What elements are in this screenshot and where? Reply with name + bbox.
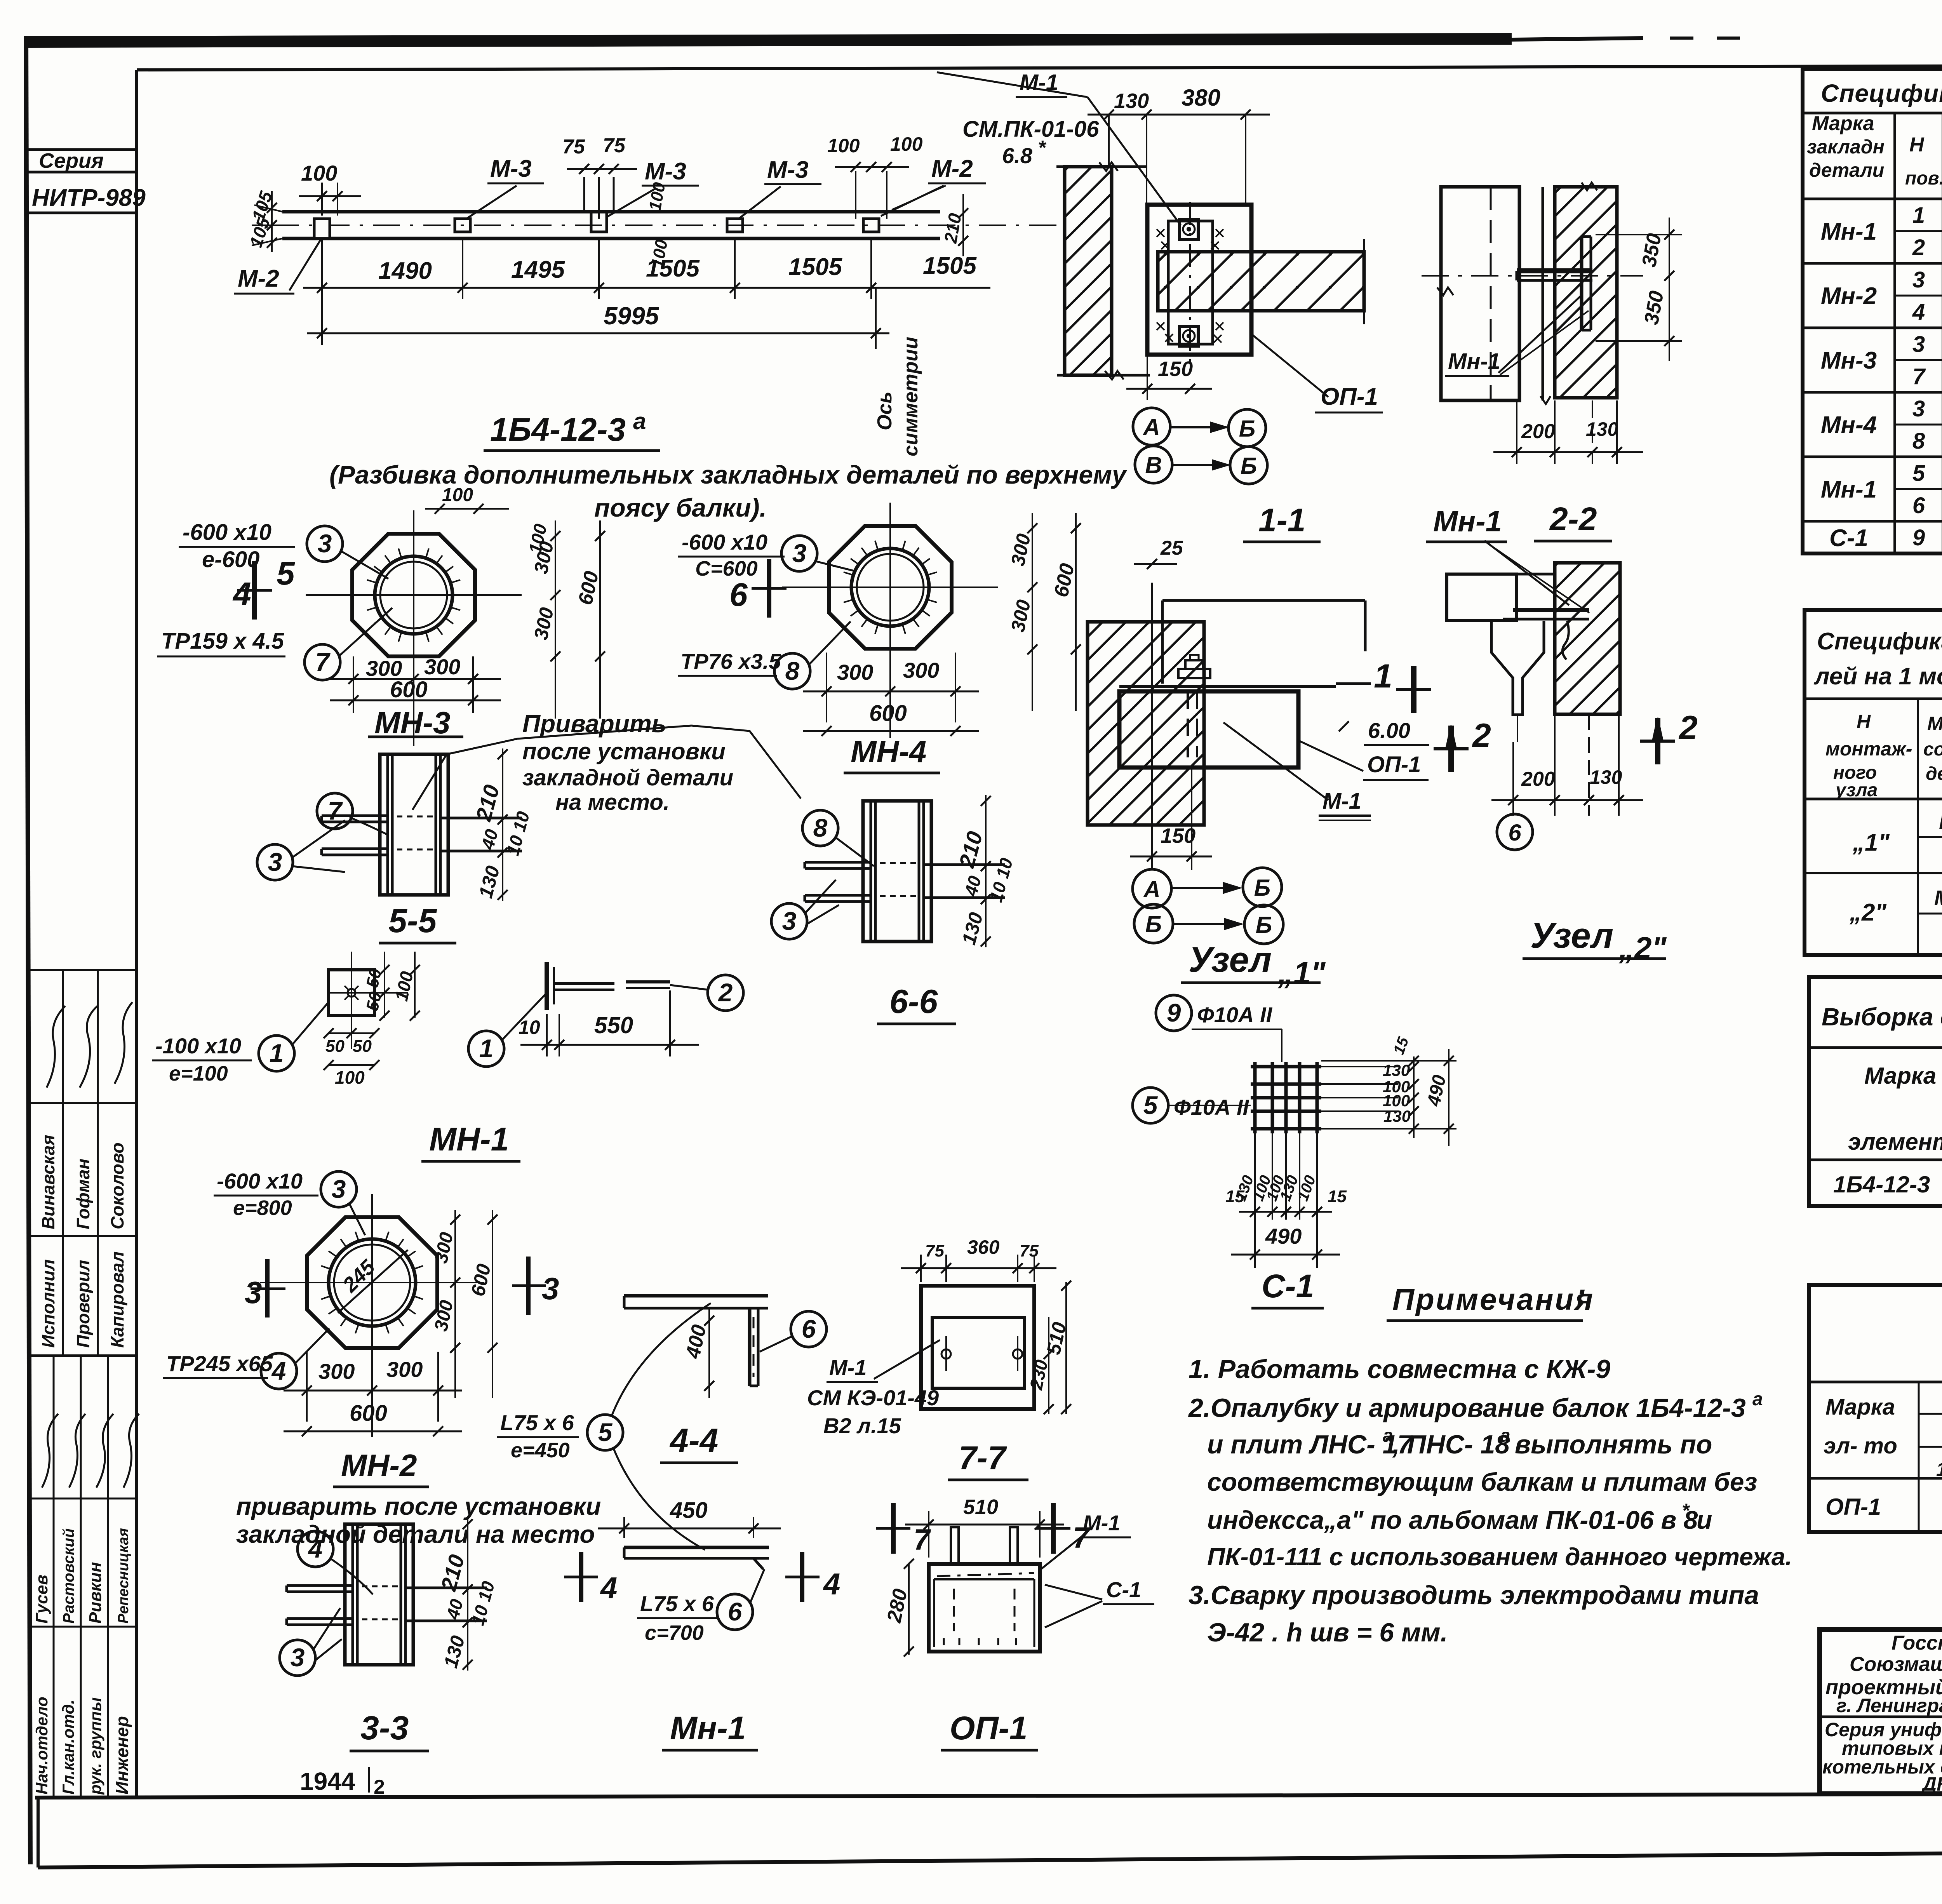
вид 7-7 outer square — [921, 1286, 1034, 1409]
svg-text:Нач.отдело: Нач.отдело — [33, 1697, 51, 1794]
table title row line — [1803, 112, 1942, 115]
svg-text:9: 9 — [1912, 525, 1925, 550]
svg-text:ТР245 х65: ТР245 х65 — [166, 1351, 273, 1376]
7-7 top dims 75 360 75 — [920, 1255, 922, 1282]
ОП-1 section marks 7 — [891, 1503, 896, 1554]
svg-text:Инженер: Инженер — [112, 1716, 132, 1794]
svg-text:6: 6 — [728, 1597, 743, 1626]
svg-text:узла: узла — [1835, 780, 1878, 801]
узел 2 anchor funnel — [1491, 621, 1544, 715]
view 2-2 embed Мн-1 tee upright — [1580, 237, 1584, 330]
svg-text:1505: 1505 — [788, 254, 842, 280]
Мн-1 title fork leader into узел 2 — [1484, 541, 1569, 605]
view 1-1 wall top line with break — [1056, 165, 1146, 168]
sidebar signatures upper (rotated squiggles) — [47, 1006, 65, 1088]
svg-text:С-1: С-1 — [1262, 1268, 1314, 1304]
view 1-1 dim 130/380 — [1108, 115, 1110, 168]
svg-text:приварить после установки: приварить после установки — [236, 1492, 601, 1520]
svg-text:Узел: Узел — [1530, 916, 1613, 955]
svg-text:3: 3 — [1912, 267, 1925, 292]
svg-text:Капировал: Капировал — [107, 1251, 127, 1348]
6-6 leader circle 3 — [771, 903, 807, 939]
svg-text:-600 х10: -600 х10 — [183, 520, 271, 545]
svg-text:соедин.: соедин. — [1923, 739, 1942, 760]
svg-text:г. Ленинград: г. Ленинград — [1836, 1695, 1942, 1716]
svg-text:7-7: 7-7 — [959, 1439, 1007, 1476]
узел 1 anchor dashed — [1187, 691, 1189, 757]
view 1-1 dim 150 — [1147, 355, 1148, 400]
svg-text:1: 1 — [1912, 203, 1925, 228]
выборка data row — [1809, 1159, 1942, 1161]
view 2-2 centreline — [1422, 275, 1643, 277]
деталь МН-2 octagon plate — [307, 1217, 437, 1348]
МН-2 dims bottom 300 300 / 600 — [306, 1352, 308, 1422]
svg-text:6-6: 6-6 — [889, 983, 938, 1020]
svg-text:закладной детали: закладной детали — [522, 765, 733, 790]
svg-text:а: а — [1383, 1425, 1393, 1446]
svg-text:закладн: закладн — [1807, 136, 1885, 158]
svg-text:1. Работать совместна с КЖ-9: 1. Работать совместна с КЖ-9 — [1189, 1354, 1610, 1384]
svg-text:4: 4 — [1912, 299, 1925, 325]
table header bottom line — [1803, 198, 1942, 200]
svg-text:закладной детали на место: закладной детали на место — [236, 1520, 595, 1548]
svg-text:Марка: Марка — [1825, 1394, 1895, 1420]
svg-text:360: 360 — [967, 1236, 1000, 1258]
dim 105 105 left (rotated) — [271, 191, 273, 252]
sheet outer bottom edge — [38, 1848, 1942, 1867]
embed plate М-3 #2 (double, 75/75) — [591, 212, 607, 232]
svg-text:3.Сварку производить электрод: 3.Сварку производить электродами типа — [1189, 1580, 1759, 1610]
svg-text:1505: 1505 — [646, 255, 700, 282]
svg-text:600: 600 — [390, 677, 428, 702]
svg-text:5995: 5995 — [604, 302, 660, 330]
frame bottom line (title block base) — [35, 1793, 1942, 1798]
svg-text:6: 6 — [729, 576, 748, 613]
svg-text:7: 7 — [914, 1523, 931, 1556]
svg-text:5: 5 — [1912, 461, 1925, 486]
bar leader circle 1 — [468, 1031, 504, 1067]
svg-text:Гусев: Гусев — [32, 1575, 51, 1624]
svg-text:510: 510 — [963, 1495, 998, 1519]
svg-text:3: 3 — [291, 1643, 305, 1672]
вид 4-4 tee: web — [748, 1308, 752, 1386]
svg-text:3: 3 — [318, 529, 332, 558]
dim 5995 overall — [307, 332, 889, 334]
svg-text:Ф10А II: Ф10А II — [1197, 1002, 1273, 1027]
svg-text:Соколово: Соколово — [107, 1142, 127, 1229]
svg-text:с=700: с=700 — [645, 1621, 704, 1645]
МН-4 dims bottom 300 300 / 600 — [826, 653, 827, 722]
ОП-1 dim 280 left — [908, 1564, 910, 1655]
svg-text:Союзмашстройпроект: Союзмашстройпроект — [1850, 1653, 1942, 1676]
узел 2 embed plate on beam — [1513, 608, 1589, 612]
bar leader circle 2 — [708, 975, 743, 1011]
3-3 leader circle 4 — [298, 1531, 333, 1567]
svg-text:НИТР-989: НИТР-989 — [32, 184, 146, 211]
svg-text:М-2: М-2 — [238, 265, 279, 292]
svg-text:6: 6 — [1508, 820, 1521, 846]
svg-text:1944: 1944 — [300, 1767, 355, 1795]
svg-text:-600 х10: -600 х10 — [682, 530, 767, 554]
svg-text:1-1: 1-1 — [1258, 502, 1305, 538]
МН-1 bar with 550: end plate — [545, 962, 549, 1010]
МН-1 bar section marks 4 — [579, 1552, 583, 1602]
svg-text:Выборка стали на один элемент.: Выборка стали на один элемент.(дополните… — [1822, 1003, 1942, 1031]
svg-text:детали: детали — [1809, 159, 1884, 181]
dim 75 75 above plate М-3 #2 — [567, 168, 637, 170]
svg-text:3: 3 — [268, 848, 282, 876]
таблица спецификация соединит деталей: frame — [1805, 610, 1942, 955]
svg-text:и плит ЛНС- 17: и плит ЛНС- 17 — [1207, 1430, 1413, 1459]
beam 1Б4-12-3а bottom chord — [282, 237, 940, 240]
svg-text:а: а — [1500, 1425, 1510, 1446]
svg-text:25: 25 — [1160, 537, 1183, 559]
view 1-1 weld x-marks — [1157, 229, 1164, 237]
svg-text:лей на 1 монтажный узел.: лей на 1 монтажный узел. — [1813, 663, 1942, 690]
svg-text:130: 130 — [1383, 1061, 1410, 1079]
svg-text:130: 130 — [1586, 418, 1618, 440]
svg-text:МН-2: МН-2 — [341, 1448, 417, 1483]
svg-text:600: 600 — [869, 701, 907, 726]
7-7 dim 510 right — [1065, 1282, 1067, 1414]
table спецификация стали: outer frame — [1803, 69, 1942, 553]
7-7 dim 230 — [1048, 1317, 1049, 1414]
7-7 bolts — [941, 1349, 951, 1359]
label 5 Ф10АII — [1133, 1088, 1168, 1123]
svg-text:100: 100 — [301, 161, 337, 185]
svg-text:4: 4 — [308, 1534, 323, 1563]
beam centreline (dash-dot) — [272, 225, 1064, 226]
ОП-1 dim 510 top — [928, 1511, 929, 1558]
svg-text:Н: Н — [1909, 134, 1925, 156]
view 2-2 dim 350/350 right — [1596, 234, 1682, 235]
svg-text:монтаж-: монтаж- — [1825, 738, 1912, 760]
svg-text:1490: 1490 — [378, 258, 432, 284]
svg-text:МН-1: МН-1 — [429, 1121, 509, 1157]
узел 1 grade circles — [1133, 869, 1171, 908]
svg-text:а: а — [1752, 1389, 1763, 1410]
узел 1 wall hatched — [1088, 622, 1204, 825]
svg-text:300: 300 — [424, 654, 460, 679]
svg-text:200: 200 — [1521, 420, 1555, 443]
svg-text:5-5: 5-5 — [388, 902, 437, 940]
svg-text:4: 4 — [232, 576, 251, 612]
6-6 leader circle 8 — [802, 810, 838, 846]
svg-text:6.00: 6.00 — [1368, 718, 1410, 743]
С-1 dim 490 right — [1448, 1049, 1450, 1146]
svg-text:детали: детали — [1926, 764, 1942, 784]
вид 5-5 plate section — [380, 754, 448, 895]
svg-text:М-1: М-1 — [1083, 1511, 1120, 1535]
показатели header — [1918, 1382, 1920, 1532]
4-4 circle 6 — [791, 1311, 827, 1347]
svg-text:130: 130 — [1114, 89, 1149, 113]
svg-text:L75 х 6: L75 х 6 — [500, 1410, 574, 1435]
svg-text:15: 15 — [1328, 1187, 1347, 1206]
view 1-1 bolt bottom — [1180, 326, 1198, 346]
svg-text:4: 4 — [600, 1571, 617, 1605]
svg-text:ПК-01-111 с использованием да: ПК-01-111 с использованием данного черте… — [1207, 1543, 1792, 1571]
узел 1 plate ОП-1 block — [1119, 691, 1298, 768]
svg-text:3: 3 — [1912, 396, 1925, 421]
svg-text:М-1: М-1 — [1323, 788, 1361, 814]
svg-text:е-600: е-600 — [202, 547, 259, 572]
5-5 leader circle 3 — [257, 844, 293, 880]
МН-1 plan small plate — [329, 970, 374, 1016]
table header verticals — [1893, 113, 1896, 553]
svg-text:пов.: пов. — [1905, 168, 1942, 189]
svg-text:150: 150 — [1161, 824, 1195, 848]
узел 1 beam above — [1162, 599, 1365, 602]
svg-text:СМ.ПК-01-06: СМ.ПК-01-06 — [962, 117, 1099, 142]
svg-text:Проверил: Проверил — [73, 1260, 93, 1348]
ОП-1 anchor dashes inside — [953, 1589, 955, 1631]
embed plate М-3 #3 — [727, 219, 743, 232]
view 2-2 top break mark — [1582, 183, 1597, 190]
view 2-2 embed Мн-1 plate — [1517, 268, 1592, 273]
svg-text:СМ КЭ-01-49: СМ КЭ-01-49 — [807, 1385, 939, 1410]
вид 4-4 tee: top flange — [624, 1294, 768, 1298]
svg-text:1Б4-12-3: 1Б4-12-3 — [1833, 1171, 1930, 1197]
svg-text:1: 1 — [270, 1039, 284, 1067]
svg-text:Ривкин: Ривкин — [86, 1562, 105, 1624]
заголовок Показатели на один элемент — [1809, 1285, 1942, 1532]
svg-text:130: 130 — [1590, 766, 1622, 788]
svg-text:М-1: М-1 — [829, 1355, 867, 1380]
svg-text:-600 х10: -600 х10 — [217, 1169, 303, 1193]
svg-text:3: 3 — [782, 907, 797, 935]
svg-text:130: 130 — [1383, 1107, 1411, 1125]
svg-text:300: 300 — [318, 1359, 355, 1384]
dim 210 right of beam (rotated) — [958, 208, 968, 218]
svg-text:3: 3 — [542, 1271, 559, 1306]
svg-text:индексса„а" по альбомам ПК-01: индексса„а" по альбомам ПК-01-06 в 8 — [1207, 1505, 1698, 1534]
view 1-1 centreline — [1189, 202, 1191, 373]
svg-text:Мн-3: Мн-3 — [1821, 347, 1877, 374]
узел 1 bolt — [1178, 669, 1210, 678]
svg-text:100: 100 — [827, 135, 860, 157]
svg-text:Гофман: Гофман — [73, 1159, 93, 1229]
деталь МН-3 octagon plate — [352, 534, 475, 656]
вид 3-3 plate section — [345, 1524, 413, 1665]
svg-text:С-1: С-1 — [1106, 1577, 1141, 1602]
svg-text:Растовский: Растовский — [60, 1528, 77, 1624]
svg-text:450: 450 — [670, 1498, 708, 1523]
узел 1 dim 150 — [1151, 825, 1153, 870]
svg-text:3: 3 — [1912, 332, 1925, 357]
svg-text:100: 100 — [890, 133, 923, 155]
МН-1 plan dims 50/50/100 right — [384, 952, 385, 1018]
узел 2 beam left — [1447, 574, 1517, 621]
svg-text:1: 1 — [479, 1034, 494, 1063]
svg-text:В2 л.15: В2 л.15 — [823, 1413, 901, 1438]
svg-text:Ось: Ось — [874, 392, 896, 430]
svg-text:100: 100 — [335, 1067, 365, 1088]
МН-1 plan dims 50 50 bottom — [329, 1032, 374, 1034]
svg-text:е=450: е=450 — [511, 1439, 570, 1462]
svg-text:75: 75 — [603, 134, 626, 157]
С-1 right dim chain 15/130/100/100/130 — [1413, 1056, 1415, 1138]
svg-text:2: 2 — [1912, 235, 1925, 260]
svg-text:7: 7 — [315, 647, 331, 676]
svg-text:Спецификация стали на один: Спецификация стали на один закладную дет… — [1821, 79, 1942, 107]
svg-text:на место.: на место. — [555, 790, 670, 815]
вид ОП-1 rect — [929, 1564, 1040, 1652]
svg-text:соответствующим балкам и плита: соответствующим балкам и плитам без — [1207, 1467, 1757, 1496]
svg-text:6: 6 — [1912, 493, 1925, 518]
svg-text:10: 10 — [519, 1016, 540, 1038]
svg-text:2: 2 — [1472, 717, 1491, 754]
svg-text:5: 5 — [277, 555, 295, 592]
svg-text:550: 550 — [594, 1012, 633, 1038]
svg-text:ДКВР: ДКВР — [1921, 1773, 1942, 1795]
svg-text:Марка: Марка — [1812, 112, 1874, 135]
svg-text:Узел: Узел — [1189, 940, 1272, 980]
показатели data row — [1809, 1477, 1942, 1480]
МН-3 dims right 300/300/600 — [481, 534, 482, 656]
svg-text:Мн-1: Мн-1 — [1433, 505, 1502, 538]
svg-text:300: 300 — [903, 658, 939, 682]
svg-text:200: 200 — [1521, 768, 1555, 790]
svg-text:50: 50 — [325, 1037, 345, 1056]
svg-text:1Б4-12-3: 1Б4-12-3 — [490, 411, 626, 448]
bar dim 10 550 — [546, 1014, 548, 1056]
svg-text:L75 х 6: L75 х 6 — [640, 1591, 714, 1616]
svg-text:ТР76 х3.5: ТР76 х3.5 — [680, 649, 781, 674]
svg-text:2: 2 — [1678, 709, 1698, 747]
svg-text:рук. группы: рук. группы — [86, 1697, 104, 1795]
grade circles А Б В Б with arrows — [1133, 408, 1170, 445]
svg-text:Мн-4: Мн-4 — [1821, 412, 1877, 439]
svg-text:М-2: М-2 — [931, 155, 973, 182]
table row lines — [1895, 230, 1942, 232]
узел 2 dims 200 130 — [1512, 742, 1514, 816]
svg-text:75: 75 — [925, 1241, 944, 1260]
svg-text:4: 4 — [271, 1356, 286, 1385]
svg-text:ОП-1: ОП-1 — [950, 1710, 1027, 1746]
svg-text:„2": „2" — [1849, 899, 1887, 926]
svg-text:1: 1 — [1374, 658, 1392, 695]
label 9 Ф10АII — [1156, 995, 1192, 1031]
svg-text:М-3: М-3 — [645, 158, 686, 185]
view 1-1 wall (hatched) — [1065, 167, 1112, 375]
svg-text:МН-4: МН-4 — [851, 734, 927, 769]
svg-text::: : — [1576, 1277, 1586, 1312]
svg-text:„2": „2" — [1618, 931, 1667, 965]
svg-text:„1": „1" — [1852, 829, 1890, 856]
view 1-1 beam slab (concrete hatched) — [1158, 252, 1364, 311]
sidebar signatures lower (squiggles) — [42, 1414, 58, 1488]
svg-text:4-4: 4-4 — [669, 1422, 718, 1459]
dim 100 100 above right М-2 plate — [835, 166, 909, 168]
svg-text:2-2: 2-2 — [1549, 501, 1597, 537]
dim 100 above left plate — [321, 183, 323, 216]
вид 6-6 plate section — [863, 801, 931, 942]
svg-text:Б: Б — [1145, 911, 1162, 937]
view 1-1 bolt top — [1180, 219, 1198, 239]
view 2-2 joint line — [1542, 187, 1544, 400]
4-4 dim 400 — [710, 1296, 711, 1394]
вид 7-7 inner plate — [932, 1317, 1025, 1388]
3-3 leader circle 3 — [280, 1640, 315, 1676]
svg-text:элемента: элемента — [1848, 1129, 1942, 1155]
таблица выборка стали: frame — [1809, 977, 1942, 1206]
view 1-1 anchor plate — [1168, 221, 1213, 344]
svg-text:е=100: е=100 — [169, 1062, 228, 1085]
svg-text:ММ-1: ММ-1 — [1934, 886, 1942, 910]
svg-text:ТР159 х 4.5: ТР159 х 4.5 — [161, 628, 284, 654]
view 2-2 wall hatched — [1555, 187, 1617, 398]
svg-text:„1": „1" — [1277, 955, 1326, 990]
svg-text:5: 5 — [598, 1418, 613, 1446]
svg-text:600: 600 — [350, 1401, 387, 1426]
svg-text:Примечания: Примечания — [1392, 1282, 1594, 1316]
svg-text:Б: Б — [1256, 912, 1272, 938]
svg-text:*: * — [1038, 137, 1047, 159]
beam left end plate М-2 — [314, 219, 330, 238]
svg-text:поясу балки).: поясу балки). — [594, 493, 767, 522]
5-5 leader circle 7 — [317, 793, 353, 829]
view 2-2 left break mark — [1437, 287, 1453, 295]
svg-text:15: 15 — [1225, 1187, 1244, 1206]
узел 1 diag leader М-1 — [1223, 722, 1328, 800]
svg-text:Мн-2: Мн-2 — [1821, 283, 1877, 310]
svg-text:Б: Б — [1241, 453, 1257, 479]
scan dark edge top — [24, 39, 1512, 42]
svg-text:ОП-1: ОП-1 — [1321, 383, 1378, 410]
sidebar column frame — [135, 70, 138, 1798]
svg-text:после установки: после установки — [522, 738, 726, 764]
svg-text:а: а — [633, 408, 646, 434]
svg-text:М-3: М-3 — [767, 157, 809, 183]
svg-text:380: 380 — [1182, 85, 1220, 111]
svg-text:100: 100 — [442, 485, 473, 505]
svg-text:*: * — [1682, 1500, 1690, 1521]
svg-text:Н: Н — [1857, 711, 1871, 733]
svg-text:А: А — [1142, 414, 1160, 440]
МН-1 bar rod (broken) — [554, 982, 614, 985]
svg-text:3: 3 — [332, 1175, 346, 1203]
svg-text:-100 х10: -100 х10 — [155, 1034, 241, 1058]
МН-1 bottom bar — [624, 1546, 769, 1549]
svg-text:М-3: М-3 — [490, 155, 532, 182]
view 2-2 precast column outline — [1441, 187, 1519, 400]
узел 2 wall hatched — [1555, 563, 1620, 714]
svg-text:симметрии: симметрии — [900, 337, 922, 456]
svg-text:6.8: 6.8 — [1002, 143, 1033, 168]
view 1-1 bearing plate — [1147, 205, 1251, 355]
МН-2 dims right 300/300/600 — [456, 1212, 457, 1406]
svg-text:Госстрой СССР: Госстрой СССР — [1892, 1632, 1942, 1654]
scan dark edge left — [26, 37, 30, 1864]
узел 1 top plate line — [1119, 685, 1336, 688]
svg-text:Ф10А II: Ф10А II — [1174, 1095, 1249, 1119]
svg-text:Репесницкая: Репесницкая — [115, 1528, 132, 1624]
view 1-1 wall bottom line with break — [1057, 374, 1150, 377]
svg-text:3-3: 3-3 — [360, 1709, 409, 1747]
svg-text:Б: Б — [1239, 416, 1255, 442]
embed plate М-3 #1 — [455, 219, 470, 232]
svg-text:Спецификация соединит.дета-: Спецификация соединит.дета- — [1817, 628, 1942, 655]
узел 2 grade circle 6 — [1497, 814, 1533, 850]
svg-text:1495: 1495 — [511, 256, 565, 283]
view 2-2 bottom break — [1540, 396, 1550, 404]
view 2-2 dims 200 130 below — [1516, 400, 1517, 464]
svg-text:Марка: Марка — [1927, 713, 1942, 734]
МН-1 bottom bar dim 450 — [623, 1517, 625, 1538]
beam 1Б4-12-3а top chord — [282, 210, 940, 214]
svg-text:МН-3: МН-3 — [374, 705, 451, 740]
